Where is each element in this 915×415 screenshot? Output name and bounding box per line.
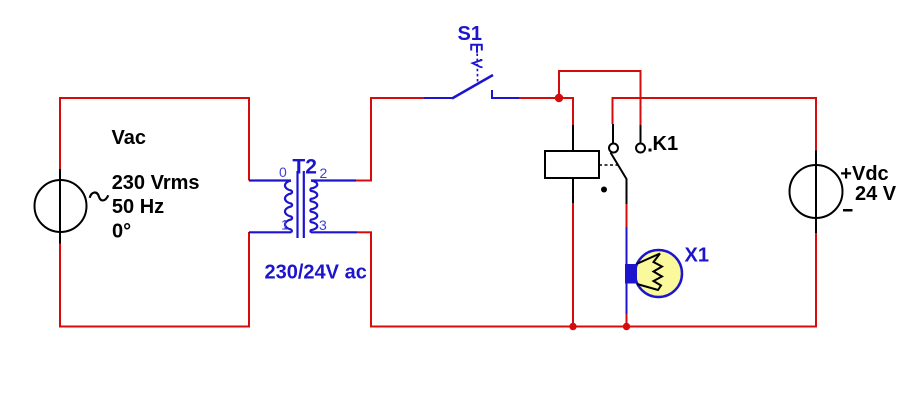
relay dashed mechanical link bbox=[599, 164, 619, 166]
wire: right loop right lower (816,233)-(816,326.5) bbox=[815, 233, 817, 328]
wire: top bus to switch (371,97.5)-(424,97.5) bbox=[370, 97, 424, 99]
wire: relay coil to bottom bus (573,203.5)-(573,326.5) bbox=[572, 203, 574, 327]
contact K1: label dot bbox=[649, 149, 652, 152]
switch S1: key glyph arrow bbox=[473, 60, 483, 68]
svg-text:230/24V ac: 230/24V ac bbox=[265, 262, 367, 284]
wire: left loop bottom (60,326.5)-(249,326.5) bbox=[59, 326, 250, 328]
DC source Vdc: lead line inside body bbox=[815, 165, 817, 218]
svg-text:0: 0 bbox=[279, 164, 287, 180]
transformer T2: secondary winding (5 loops with curls) bbox=[310, 181, 317, 233]
svg-text:+Vdc: +Vdc bbox=[840, 163, 888, 185]
lamp X1: lead blue vertical bbox=[626, 227, 628, 314]
switch S1: right lead bbox=[492, 97, 519, 99]
contact K1: blade bbox=[611, 153, 627, 205]
transformer T2: primary top lead bbox=[249, 179, 291, 181]
wire: blade to lamp red (626.5,204)-(626.5,227) bbox=[626, 204, 628, 227]
DC source Vdc: lead line through body bbox=[815, 151, 817, 234]
relay coil lead black bottom bbox=[572, 178, 574, 204]
transformer T2: secondary top lead bbox=[311, 179, 356, 181]
wire: lamp to bottom bus red (626.5,314)-(626.5,326.5) bbox=[626, 314, 628, 327]
wire: switch to junction (519,97.5)-(559,97.5) bbox=[519, 97, 560, 99]
wire: secondary bottom lead red part bbox=[357, 231, 372, 233]
wire: overbridge top (559,71)-(640,71) bbox=[558, 70, 641, 72]
lamp X1: filament bbox=[637, 254, 663, 291]
svg-text:S1: S1 bbox=[458, 23, 482, 45]
contact K1: left terminal circle bbox=[609, 144, 618, 153]
DC source Vdc: circle bbox=[790, 165, 843, 218]
wire: junction to relay branch (559,97.5)-(573,97.5)-(573,125) bbox=[559, 98, 573, 126]
wire: overbridge drop (640,71)-(640,125) bbox=[640, 70, 642, 125]
relay coil box bbox=[545, 151, 599, 178]
svg-text:50 Hz: 50 Hz bbox=[112, 196, 164, 218]
wire: left contact riser red (612.5,97.5)-(612.5,124) bbox=[612, 97, 614, 124]
switch S1: blade bbox=[452, 75, 493, 99]
svg-text:Vac: Vac bbox=[112, 127, 146, 149]
lamp X1: bulb circle bbox=[635, 250, 682, 297]
svg-text:2: 2 bbox=[320, 165, 328, 181]
contact K1: left riser black bbox=[612, 124, 614, 144]
transformer T2: secondary bottom lead bbox=[311, 231, 357, 233]
switch S1: right contact post bbox=[491, 90, 493, 99]
transformer T2: core line right bbox=[303, 171, 305, 238]
wire: left loop right lower (249,232)-(249,326.5) bbox=[248, 232, 250, 328]
contact K1: right terminal circle bbox=[636, 144, 645, 153]
wire: left loop left lower (60,243)-(60,326.5) bbox=[59, 243, 61, 328]
junction dot (559,97.5) bbox=[555, 94, 563, 102]
wire: left loop left upper (60,97.5)-(60,169) bbox=[59, 97, 61, 169]
AC source Vac: circle bbox=[35, 180, 87, 232]
junction dot (573,326.5) bbox=[569, 323, 576, 330]
wire: middle loop left lower (371,232)-(371,326.5) bbox=[370, 232, 372, 328]
transformer T2: primary winding (4 loops with curls) bbox=[285, 181, 292, 233]
svg-text:230 Vrms: 230 Vrms bbox=[112, 172, 200, 194]
contact K1: position dot bbox=[601, 187, 607, 193]
wire: right loop right upper (816,97.5)-(816,150.5) bbox=[815, 97, 817, 151]
AC source Vac: lead line through body bbox=[59, 169, 61, 244]
wire: left loop right upper (249,97.5)-(249,180) bbox=[248, 97, 250, 181]
transformer T2: core line left bbox=[296, 171, 298, 238]
svg-text:24 V: 24 V bbox=[855, 183, 897, 205]
wire: middle loop left upper (371,97.5)-(371,180) bbox=[370, 97, 372, 181]
junction dot (626.5,326.5) bbox=[623, 323, 630, 330]
wire: left loop top (60,97.5)-(249,97.5) bbox=[59, 97, 250, 99]
wire: right net top bus (612.5,97.5)-(816,97.5) bbox=[612, 97, 818, 99]
switch S1: key glyph (rotated m) bbox=[470, 45, 483, 53]
relay coil lead black top bbox=[572, 125, 574, 152]
wire: bottom bus (371,326.5)-(816,326.5) bbox=[370, 326, 817, 328]
svg-text:T2: T2 bbox=[292, 156, 317, 179]
switch S1: dashed actuator line bbox=[476, 54, 478, 85]
svg-text:K1: K1 bbox=[653, 133, 679, 155]
minus sign bbox=[843, 209, 853, 212]
wire: riser (559,97.5)-(559,71) bbox=[558, 70, 560, 98]
svg-text:X1: X1 bbox=[685, 245, 709, 267]
lamp X1: base square bbox=[625, 264, 637, 284]
AC source Vac: tilde sign bbox=[90, 193, 109, 201]
switch S1: left lead bbox=[424, 97, 452, 99]
svg-text:3: 3 bbox=[319, 217, 327, 233]
transformer T2: primary bottom lead bbox=[249, 231, 291, 233]
svg-text:0°: 0° bbox=[112, 220, 131, 242]
wire: secondary top lead red part bbox=[356, 180, 372, 182]
contact K1: right riser black bbox=[640, 125, 642, 144]
svg-text:1: 1 bbox=[281, 217, 289, 233]
